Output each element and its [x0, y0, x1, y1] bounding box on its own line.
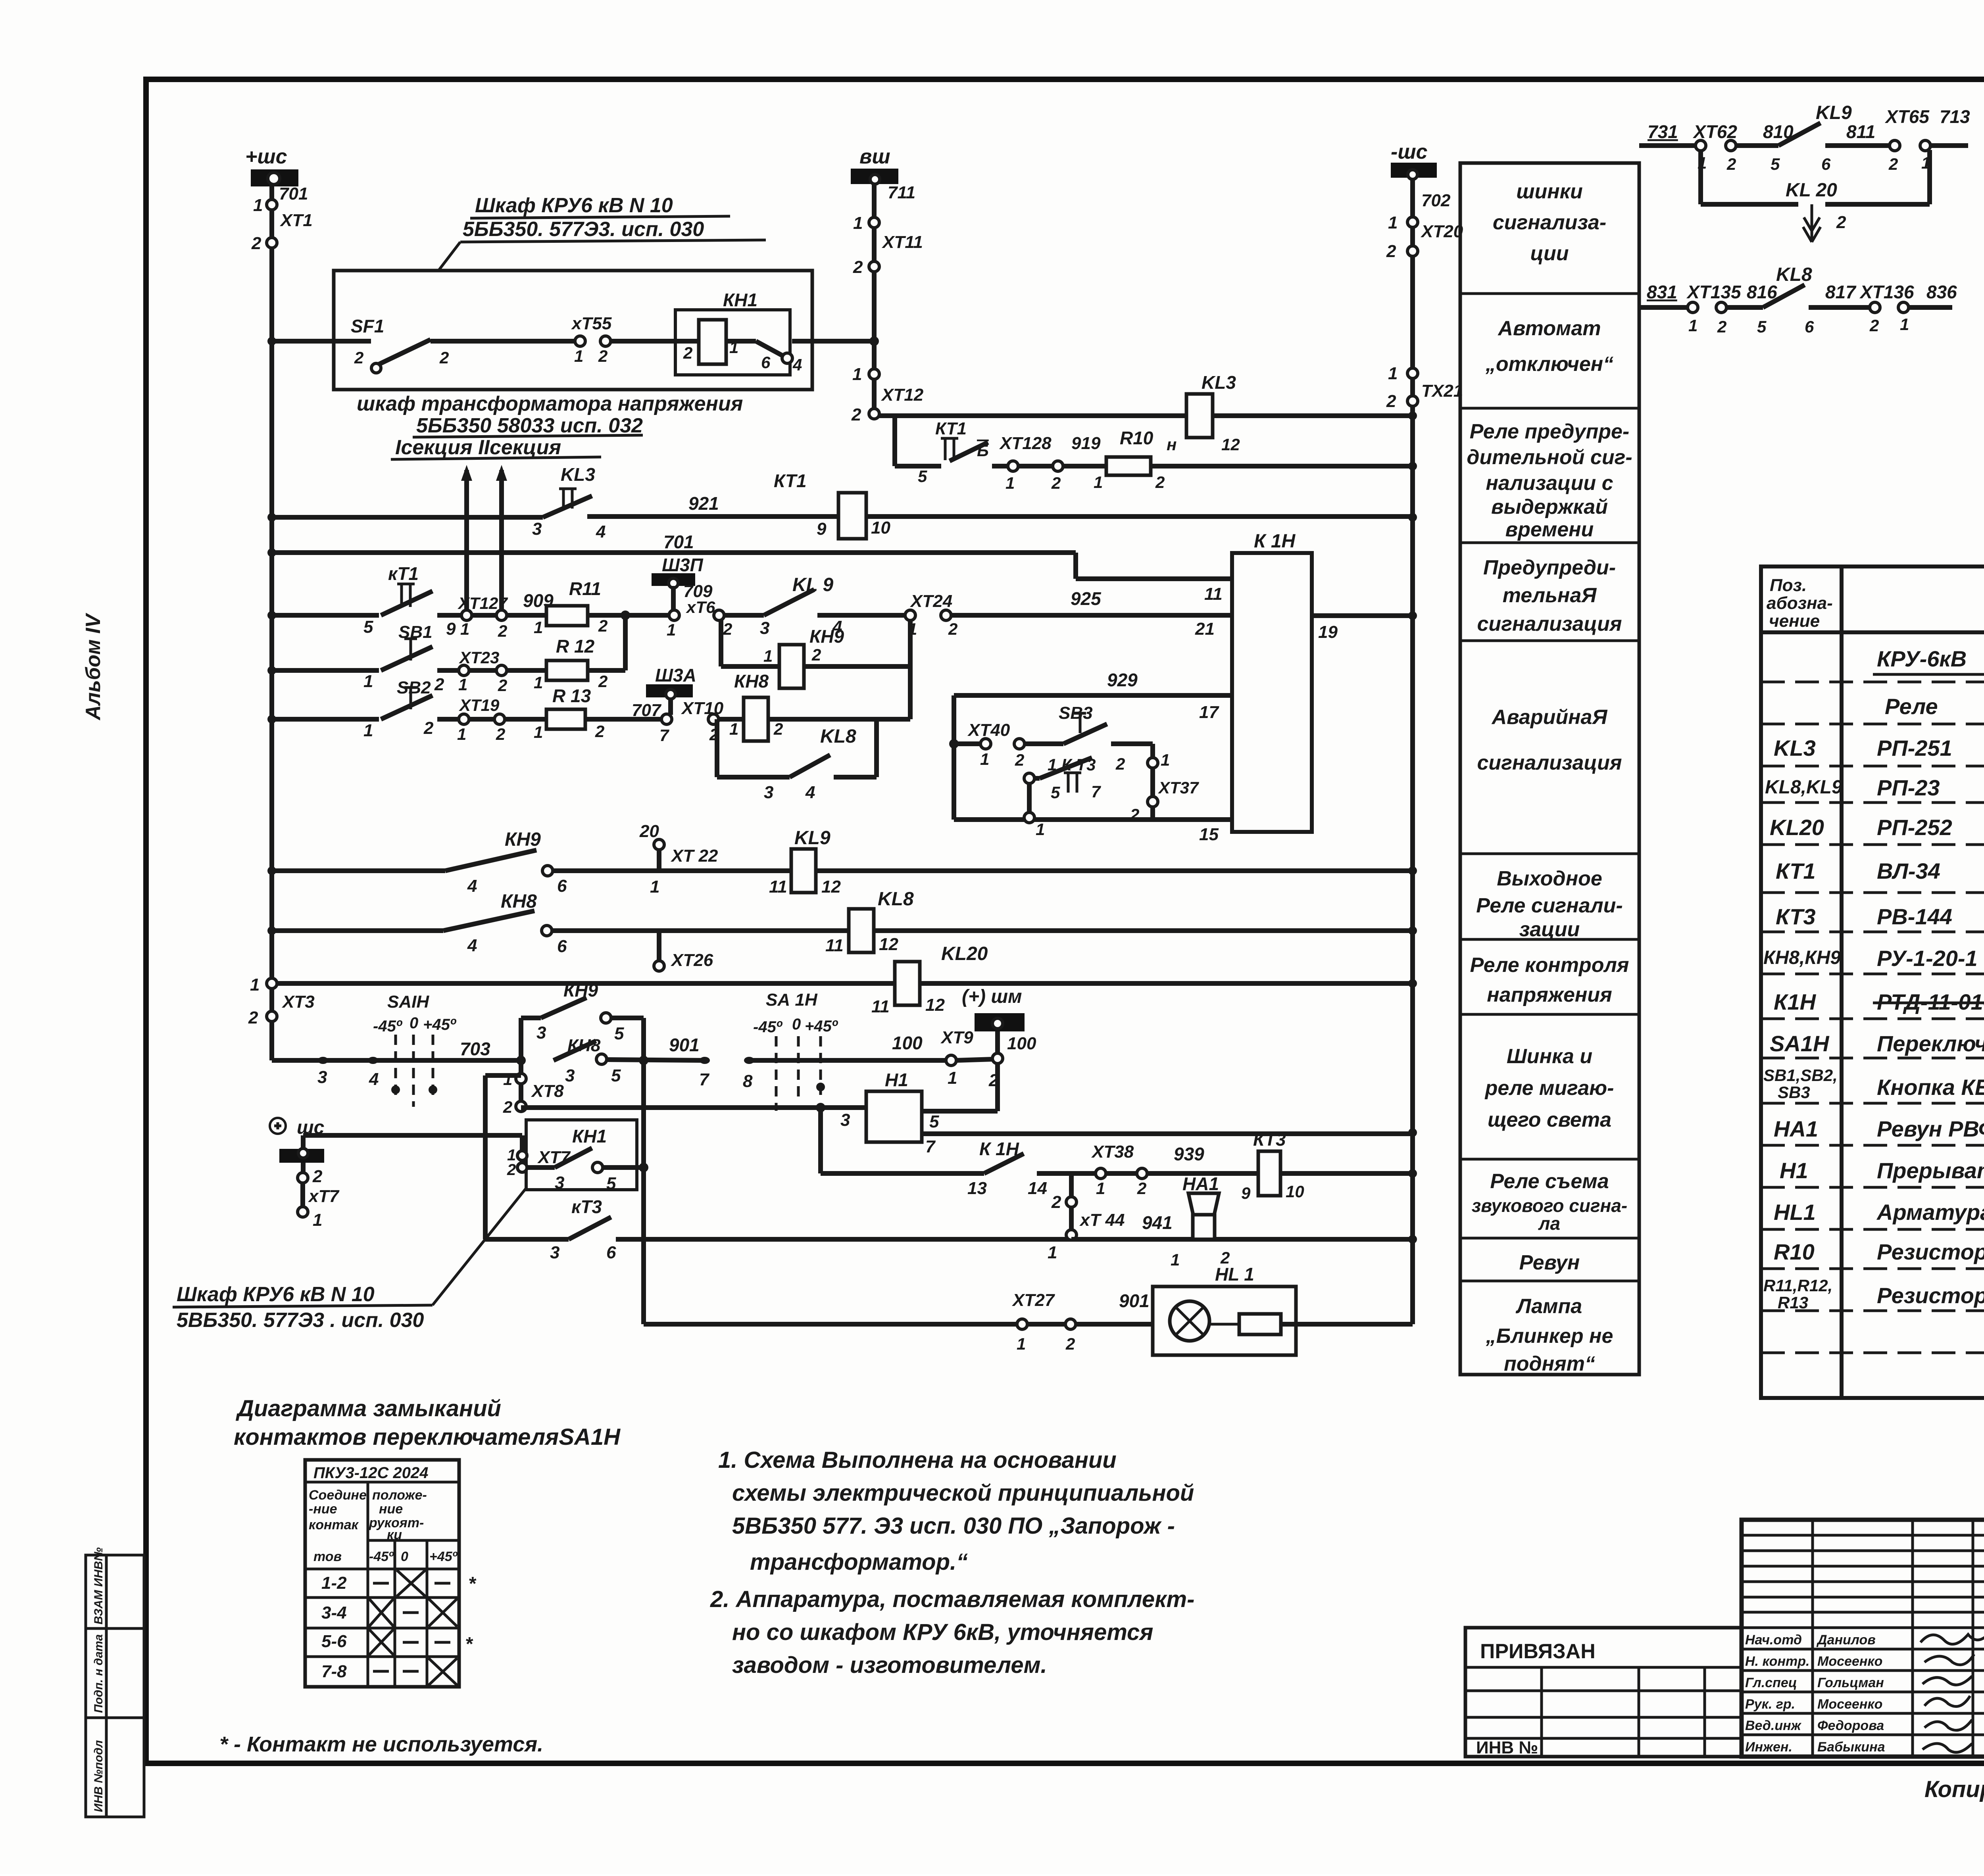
svg-text:-шс: -шс [1391, 140, 1428, 163]
svg-text:SВ3: SВ3 [1778, 1083, 1810, 1102]
svg-text:Арматура АМЕ-32522 1142-220: Арматура АМЕ-32522 1142-220В [1876, 1200, 1984, 1225]
KL9 coil [791, 849, 816, 893]
svg-text:SА 1Н: SА 1Н [766, 990, 818, 1010]
929 loop box with SB3 / KT3 [949, 670, 1232, 839]
svg-text:шинки: шинки [1516, 180, 1583, 203]
svg-text:ВЗАМ ИНВ№: ВЗАМ ИНВ№ [92, 1548, 105, 1624]
svg-text:контактов переключателяSА1Н: контактов переключателяSА1Н [234, 1424, 621, 1450]
KL8 coil [849, 909, 874, 952]
svg-text:РП-251: РП-251 [1877, 735, 1952, 760]
svg-text:1: 1 [1900, 315, 1909, 334]
svg-text:КН8: КН8 [501, 891, 537, 912]
relay K1H box [1199, 531, 1413, 844]
svg-text:Реле предупре-: Реле предупре- [1470, 420, 1630, 443]
svg-text:(+) шм: (+) шм [962, 986, 1022, 1007]
bottom annotations below frame [1924, 1769, 1984, 1806]
svg-text:R13: R13 [1778, 1293, 1808, 1312]
svg-text:2: 2 [507, 1161, 516, 1179]
svg-text:5ВБ350. 577Э3 . исп. 030: 5ВБ350. 577Э3 . исп. 030 [177, 1309, 424, 1332]
svg-text:KL3: KL3 [561, 464, 595, 485]
svg-text:5: 5 [918, 467, 927, 486]
svg-text:1: 1 [853, 213, 863, 233]
svg-text:ХТ1: ХТ1 [279, 211, 313, 230]
svg-text:РП-23: РП-23 [1877, 775, 1940, 800]
svg-text:1: 1 [313, 1210, 322, 1230]
bus шс (bottom-left) [270, 1117, 522, 1230]
svg-text:ХТ37: ХТ37 [1158, 778, 1199, 797]
921 row with KL3 contact and KT1 coil [272, 464, 1413, 541]
svg-text:3: 3 [760, 618, 769, 638]
svg-text:ХТ136: ХТ136 [1859, 282, 1914, 302]
svg-text:703: 703 [460, 1039, 490, 1059]
svg-text:10: 10 [871, 518, 890, 538]
svg-text:1: 1 [729, 720, 738, 738]
svg-text:2: 2 [1155, 473, 1165, 492]
svg-text:тельнаЯ: тельнаЯ [1503, 584, 1597, 607]
svg-text:КН9: КН9 [563, 980, 598, 1000]
svg-text:ции: ции [1530, 242, 1569, 265]
svg-text:KL3: KL3 [1774, 735, 1816, 760]
KT3 coil [1258, 1151, 1280, 1196]
node dots on left feeder [267, 337, 276, 935]
svg-text:21: 21 [1195, 619, 1215, 639]
svg-text:Поз.: Поз. [1770, 576, 1807, 595]
SB1/909 row [272, 555, 1232, 642]
svg-text:Б: Б [977, 441, 989, 460]
svg-text:R11: R11 [569, 578, 601, 599]
svg-text:2: 2 [598, 347, 608, 365]
svg-text:2: 2 [248, 1008, 258, 1027]
svg-text:Инжен.: Инжен. [1745, 1740, 1792, 1755]
svg-text:100: 100 [1007, 1034, 1036, 1053]
svg-text:SF1: SF1 [351, 316, 384, 336]
svg-text:ПКУ3-12С 2024: ПКУ3-12С 2024 [313, 1464, 429, 1482]
svg-text:ХТ23: ХТ23 [459, 648, 499, 667]
svg-text:1: 1 [534, 618, 543, 637]
svg-text:4: 4 [596, 522, 606, 541]
svg-text:0: 0 [401, 1549, 408, 1564]
svg-text:чение: чение [1769, 611, 1820, 631]
svg-text:КН9: КН9 [505, 829, 541, 850]
svg-text:901: 901 [1119, 1290, 1150, 1311]
main rail r1 through SF1 cabinet [272, 339, 874, 344]
svg-text:929: 929 [1107, 670, 1138, 690]
svg-text:1: 1 [1096, 1179, 1105, 1198]
svg-text:ХТ26: ХТ26 [670, 950, 713, 970]
svg-text:1: 1 [1388, 213, 1398, 232]
svg-text:3: 3 [532, 519, 542, 539]
svg-text:925: 925 [1071, 588, 1102, 609]
KL8 bypass contact [715, 719, 719, 777]
svg-text:заводом - изготовителем.: заводом - изготовителем. [732, 1652, 1047, 1678]
svg-text:сигнализа-: сигнализа- [1493, 211, 1606, 234]
svg-text:2: 2 [1065, 1335, 1075, 1353]
svg-text:реле мигаю-: реле мигаю- [1484, 1077, 1614, 1100]
svg-text:времени: времени [1505, 518, 1594, 541]
svg-text:2: 2 [498, 676, 507, 695]
terminal XT23 [459, 665, 469, 676]
branch down to KT1(5-Б) row [892, 416, 897, 466]
svg-text:11: 11 [871, 997, 890, 1016]
svg-text:КН9: КН9 [809, 626, 844, 647]
svg-text:1: 1 [1094, 473, 1103, 492]
SA1H selector row [272, 980, 1003, 1111]
svg-text:ВЛ-34: ВЛ-34 [1877, 858, 1940, 883]
K1H 13-14 row [821, 1108, 1413, 1202]
svg-text:6: 6 [557, 876, 567, 896]
svg-text:ХТ8: ХТ8 [531, 1081, 564, 1101]
svg-text:Рук. гр.: Рук. гр. [1745, 1697, 1795, 1712]
svg-text:Резистор ПЭВ-50: Резистор ПЭВ-50 [1877, 1283, 1984, 1308]
svg-text:Гл.спец: Гл.спец [1745, 1675, 1797, 1690]
svg-text:Лампа: Лампа [1515, 1295, 1582, 1318]
svg-text:Реле контроля: Реле контроля [1470, 954, 1629, 977]
svg-text:АварийнаЯ: АварийнаЯ [1491, 706, 1608, 729]
R10 row [895, 419, 1413, 492]
svg-text:Кнопка КЕ 011: Кнопка КЕ 011 [1877, 1075, 1984, 1100]
title block [1465, 1520, 1984, 1757]
svg-text:2: 2 [773, 720, 783, 738]
svg-text:хТ 44: хТ 44 [1079, 1210, 1125, 1230]
svg-text:Копировал:: Копировал: [1924, 1776, 1984, 1802]
svg-text:1: 1 [650, 877, 659, 897]
svg-text:10: 10 [1286, 1182, 1304, 1201]
svg-text:КТ1: КТ1 [935, 419, 967, 438]
svg-text:5: 5 [1051, 783, 1060, 802]
resistor R12 [546, 661, 588, 680]
svg-text:1: 1 [1388, 364, 1398, 383]
left margin stamp boxes [86, 1548, 144, 1817]
svg-text:Выходное: Выходное [1497, 867, 1602, 890]
svg-text:4: 4 [792, 355, 802, 374]
svg-text:4: 4 [467, 876, 477, 896]
svg-text:0: 0 [792, 1016, 801, 1033]
svg-text:ХТ20: ХТ20 [1420, 222, 1463, 241]
wire from +шс down [269, 184, 274, 341]
svg-text:Н1: Н1 [1780, 1158, 1808, 1183]
svg-text:2: 2 [498, 622, 507, 640]
svg-text:Автомат: Автомат [1497, 317, 1601, 340]
svg-text:схемы электрической принци: схемы электрической принципиальной [732, 1480, 1194, 1506]
svg-text:РП-252: РП-252 [1877, 815, 1952, 840]
svg-text:Ревун РВФ- 220В: Ревун РВФ- 220В [1877, 1116, 1984, 1141]
KL20 bracket [1698, 150, 1703, 204]
svg-text:Н. контр.: Н. контр. [1745, 1654, 1809, 1669]
svg-text:н: н [1167, 435, 1177, 454]
svg-text:+45º: +45º [423, 1016, 457, 1033]
svg-text:707: 707 [632, 701, 662, 720]
svg-text:сигнализация: сигнализация [1477, 613, 1622, 636]
svg-text:трансформатор.“: трансформатор.“ [750, 1549, 968, 1575]
svg-text:ХТ24: ХТ24 [909, 591, 952, 611]
svg-text:1: 1 [1017, 1335, 1026, 1353]
svg-text:хТ6: хТ6 [686, 598, 715, 616]
svg-text:6: 6 [557, 937, 567, 956]
svg-text:2: 2 [1051, 1192, 1061, 1212]
svg-text:+45º: +45º [429, 1549, 458, 1564]
svg-text:Федорова: Федорова [1817, 1718, 1884, 1733]
circuit breaker SF1 [351, 316, 449, 373]
bus -шс [1391, 140, 1437, 179]
svg-text:5ВБ350 577. Э3 исп. 030: 5ВБ350 577. Э3 исп. 030 ПО „Запорож - [732, 1513, 1175, 1539]
svg-text:11: 11 [825, 936, 844, 955]
svg-text:НА1: НА1 [1182, 1173, 1219, 1194]
svg-text:Переключатель ПКУ3-12С 2024: Переключатель ПКУ3-12С 2024 [1877, 1031, 1984, 1056]
svg-text:3: 3 [555, 1173, 564, 1192]
svg-text:SАIН: SАIН [387, 992, 429, 1012]
svg-text:хТ7: хТ7 [308, 1187, 340, 1206]
svg-text:1: 1 [667, 620, 676, 639]
svg-text:7: 7 [925, 1137, 936, 1156]
svg-text:Н1: Н1 [885, 1070, 908, 1090]
svg-text:поднят“: поднят“ [1504, 1352, 1595, 1375]
svg-text:2: 2 [723, 620, 732, 638]
terminal XT7 [298, 1173, 308, 1183]
svg-text:1: 1 [460, 620, 469, 638]
svg-text:KL8: KL8 [1776, 264, 1812, 285]
svg-text:2: 2 [423, 718, 434, 738]
svg-text:РУ-1-20-1: РУ-1-20-1 [1877, 946, 1978, 971]
svg-text:2: 2 [1386, 392, 1396, 411]
svg-text:KL9: KL9 [1816, 102, 1852, 123]
KH9 coil branch [721, 620, 910, 719]
svg-text:1: 1 [948, 1068, 957, 1088]
svg-text:941: 941 [1142, 1212, 1173, 1233]
svg-text:12: 12 [1221, 435, 1240, 454]
svg-text:Диаграмма замыканий: Диаграмма замыканий [235, 1396, 501, 1421]
cell marks: dashes and crosses [369, 1570, 457, 1685]
svg-text:12: 12 [879, 935, 898, 954]
svg-text:-45º: -45º [369, 1549, 394, 1564]
svg-text:1: 1 [534, 723, 543, 741]
svg-text:2: 2 [1115, 755, 1125, 773]
svg-text:2: 2 [1836, 213, 1846, 232]
svg-text:1: 1 [253, 196, 263, 215]
svg-text:5: 5 [1771, 155, 1780, 173]
svg-text:3: 3 [565, 1066, 575, 1085]
horn HA1 [1171, 1173, 1230, 1269]
svg-text:Шкаф КРУ6 кВ N 10: Шкаф КРУ6 кВ N 10 [475, 194, 673, 217]
cabinet label above [438, 194, 766, 271]
svg-text:тов: тов [313, 1549, 342, 1564]
svg-text:701: 701 [279, 184, 308, 204]
terminal XT127 [461, 610, 472, 620]
parallel contact KH9 3-5 [519, 1018, 523, 1060]
svg-text:KL20: KL20 [1770, 815, 1824, 840]
svg-text:К1Н: К1Н [1774, 989, 1817, 1014]
signatures grid [1811, 1520, 1814, 1757]
section arrows up [461, 465, 507, 615]
svg-text:ХТ127: ХТ127 [458, 594, 508, 613]
svg-text:KL8,KL9: KL8,KL9 [1765, 777, 1842, 798]
svg-text:2: 2 [598, 672, 608, 691]
svg-text:2: 2 [1137, 1179, 1146, 1198]
svg-text:Реле съема: Реле съема [1490, 1170, 1609, 1193]
XT44 link [1048, 1173, 1413, 1262]
XT26 stub [657, 931, 661, 962]
svg-text:КН1: КН1 [572, 1126, 607, 1146]
svg-text:3: 3 [550, 1243, 559, 1262]
svg-text:но со шкафом КРУ 6кВ,: но со шкафом КРУ 6кВ, уточняется [732, 1619, 1153, 1645]
notes [710, 1447, 1194, 1678]
svg-text:KL8: KL8 [820, 726, 856, 747]
svg-text:Шкаф КРУ6 кВ N 10: Шкаф КРУ6 кВ N 10 [177, 1283, 375, 1306]
svg-text:2: 2 [851, 405, 861, 424]
svg-text:ХТ135: ХТ135 [1686, 282, 1742, 302]
svg-text:14: 14 [1028, 1179, 1047, 1198]
svg-text:2: 2 [434, 675, 444, 694]
svg-text:SА1Н: SА1Н [1770, 1031, 1830, 1056]
svg-text:ХТ11: ХТ11 [881, 232, 923, 252]
svg-text:919: 919 [1071, 434, 1101, 453]
terminal XT3 [248, 975, 315, 1027]
svg-text:КТ3: КТ3 [1776, 904, 1815, 929]
svg-text:Данилов: Данилов [1816, 1632, 1876, 1648]
svg-text:2: 2 [1888, 155, 1898, 173]
terminal XT40 [980, 739, 991, 749]
svg-text:1: 1 [1171, 1250, 1180, 1269]
svg-text:9: 9 [817, 519, 827, 539]
svg-text:1: 1 [1161, 751, 1170, 769]
svg-text:2: 2 [1051, 474, 1061, 492]
KH9 row [272, 822, 1413, 897]
svg-text:831: 831 [1647, 282, 1677, 302]
svg-text:1: 1 [852, 365, 862, 384]
svg-text:7-8: 7-8 [321, 1662, 347, 1681]
parts list table [1761, 566, 1984, 1398]
svg-text:вш: вш [859, 145, 890, 168]
svg-text:напряжения: напряжения [1487, 983, 1612, 1006]
svg-text:Вед.инж: Вед.инж [1745, 1718, 1802, 1733]
svg-text:-45º: -45º [753, 1018, 783, 1036]
lamp HL1 row [644, 1264, 1413, 1355]
terminal XT6 [669, 610, 679, 620]
svg-text:5ББ350 58033 исп. 032: 5ББ350 58033 исп. 032 [416, 414, 643, 437]
lamp symbol HL1 [1170, 1301, 1209, 1341]
svg-text:2: 2 [1869, 316, 1879, 335]
svg-text:2: 2 [853, 257, 863, 277]
svg-text:1: 1 [457, 725, 466, 743]
svg-text:нализации с: нализации с [1486, 472, 1613, 495]
terminal XT27 [1017, 1319, 1027, 1329]
SB2 row [272, 615, 625, 697]
svg-text:Предупреди-: Предупреди- [1483, 556, 1616, 579]
svg-text:SВ1,SВ2,: SВ1,SВ2, [1763, 1066, 1838, 1085]
KL20 row [276, 943, 1413, 1016]
svg-text:KL9: KL9 [794, 828, 831, 849]
svg-text:702: 702 [1421, 191, 1451, 210]
svg-text:5: 5 [1757, 317, 1767, 336]
svg-text:Мосеенко: Мосеенко [1817, 1697, 1882, 1712]
cabinet label (bottom left) [173, 1188, 526, 1332]
resistor R13 [546, 709, 585, 729]
svg-text:8: 8 [743, 1071, 753, 1091]
svg-text:ХТ65: ХТ65 [1884, 106, 1930, 127]
svg-text:дительной сиг-: дительной сиг- [1467, 446, 1632, 469]
KH8 row [272, 889, 1413, 971]
svg-text:ХТ128: ХТ128 [999, 434, 1052, 453]
svg-text:5: 5 [606, 1174, 616, 1193]
svg-text:зации: зации [1519, 918, 1580, 941]
svg-text:КН8: КН8 [567, 1036, 601, 1055]
KH1 contact box (bottom) [507, 1120, 648, 1193]
svg-text:ХТ12: ХТ12 [880, 385, 924, 405]
svg-text:„Блинкер не: „Блинкер не [1486, 1325, 1613, 1348]
wire break marks 3,4 [318, 1057, 328, 1064]
svg-text:2: 2 [1717, 317, 1726, 336]
svg-text:1: 1 [574, 347, 583, 365]
svg-text:811: 811 [1846, 121, 1875, 142]
cabinet box КРУ N10 [334, 271, 812, 390]
svg-text:3: 3 [764, 783, 773, 802]
svg-text:KL3: KL3 [1202, 372, 1236, 393]
svg-text:2: 2 [598, 616, 608, 635]
svg-text:2: 2 [439, 348, 449, 367]
svg-text:6: 6 [1805, 317, 1814, 336]
svg-text:хТ55: хТ55 [571, 314, 612, 333]
svg-text:731: 731 [1648, 121, 1678, 142]
contact KH8 3-5 on row [554, 1041, 596, 1060]
svg-text:2: 2 [811, 645, 821, 664]
terminal XT24 [905, 610, 915, 620]
bus (+)шм [962, 986, 1036, 1111]
svg-text:3-4: 3-4 [321, 1603, 347, 1623]
svg-text:R10: R10 [1120, 428, 1153, 448]
svg-text:901: 901 [669, 1035, 700, 1055]
svg-text:1: 1 [1048, 1243, 1057, 1262]
svg-text:KL 9: KL 9 [792, 574, 833, 595]
svg-text:ХТ3: ХТ3 [281, 992, 315, 1012]
SB3 row (R13) [272, 665, 910, 802]
svg-text:711: 711 [888, 183, 915, 202]
top right: KL9 / KL20 wires [1639, 102, 1970, 242]
svg-text:Нач.отд: Нач.отд [1745, 1632, 1802, 1648]
svg-text:Альбом IV: Альбом IV [82, 613, 105, 721]
svg-text:19: 19 [1318, 622, 1338, 642]
svg-text:КН1: КН1 [723, 290, 757, 310]
svg-text:701: 701 [663, 532, 694, 552]
terminal XT128 [1008, 461, 1018, 471]
svg-text:*: * [465, 1634, 473, 1655]
svg-text:ки: ки [387, 1527, 402, 1542]
left feeder vertical [269, 341, 274, 979]
resistor R10 [1106, 457, 1151, 475]
вш vertical with XT11 XT12 [851, 183, 924, 424]
svg-text:4: 4 [805, 783, 815, 802]
KT3 contact 3-6 [550, 1196, 1071, 1262]
svg-text:R11,R12,: R11,R12, [1763, 1276, 1832, 1295]
terminal XT1 [251, 184, 313, 253]
svg-text:ние: ние [379, 1502, 403, 1517]
svg-text:Подп. н дата: Подп. н дата [92, 1634, 105, 1713]
svg-text:* - Контакт не используется: * - Контакт не используется. [219, 1732, 543, 1756]
svg-text:5: 5 [611, 1066, 621, 1085]
top right: KL8 wire [1639, 264, 1957, 336]
svg-text:1: 1 [503, 1070, 512, 1089]
svg-text:15: 15 [1199, 825, 1219, 844]
svg-text:9: 9 [1241, 1184, 1251, 1202]
svg-text:„отключен“: „отключен“ [1485, 353, 1613, 376]
terminal XT55 [571, 314, 612, 365]
svg-text:контак: контак [309, 1517, 359, 1532]
svg-text:ИНВ №подл: ИНВ №подл [92, 1740, 105, 1812]
svg-text:Ш3П: Ш3П [662, 555, 704, 575]
svg-text:ХТ40: ХТ40 [967, 720, 1010, 740]
svg-text:5: 5 [363, 617, 373, 637]
svg-text:1: 1 [980, 750, 989, 768]
svg-text:5-6: 5-6 [321, 1632, 347, 1651]
transformer cabinet label below [357, 392, 743, 459]
